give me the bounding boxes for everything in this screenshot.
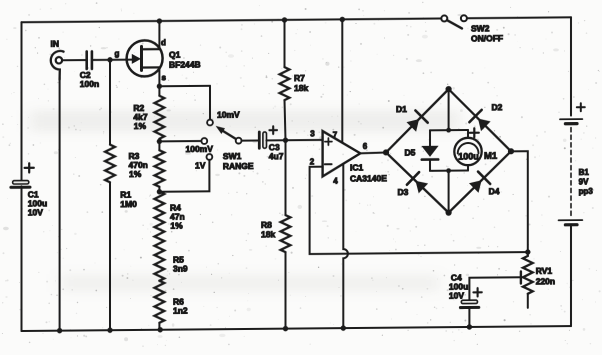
svg-text:10V: 10V — [449, 291, 464, 301]
node: bridge left corner (pin 6 node) — [383, 149, 389, 155]
svg-text:10mV: 10mV — [217, 110, 240, 120]
wire: left border branch (C1 branch, above C1) — [21, 22, 23, 181]
wire: box bottom down to bridge bottom corner — [448, 171, 450, 213]
svg-text:D3: D3 — [398, 187, 409, 197]
wire: top +9V rail (left section, to SW2) — [22, 19, 442, 23]
svg-text:3n9: 3n9 — [173, 264, 188, 274]
node: drain on +9V rail — [157, 18, 162, 23]
node: R1 bottom on 0V rail — [107, 327, 112, 332]
wire: R1 to 0V rail — [109, 182, 111, 330]
resistor R4 47n 1% — [155, 192, 185, 239]
node: bridge bottom corner — [446, 210, 452, 216]
node: IN sleeve on 0V rail — [57, 328, 62, 333]
node: gate junction (C2 / R1 / Q1 gate) — [107, 57, 112, 62]
capacitor C3 4u7 (electrolytic, coupling to IC1) — [259, 126, 283, 161]
svg-text:2: 2 — [310, 157, 315, 166]
wire: right border branch (battery B1 branch, lower) — [570, 228, 572, 327]
svg-text:6: 6 — [363, 142, 368, 151]
svg-text:220n: 220n — [536, 276, 555, 286]
wire: IC1 pin 7 up to +9V rail — [341, 19, 343, 142]
svg-text:D2: D2 — [492, 102, 503, 112]
svg-text:RANGE: RANGE — [223, 161, 254, 171]
svg-text:Q1: Q1 — [169, 50, 181, 60]
capacitor C1 100u 10V (electrolytic, on left branch) — [11, 163, 47, 218]
diode D1 — [396, 104, 428, 132]
svg-text:1%: 1% — [134, 121, 147, 131]
wire: gate node down to R1 — [109, 60, 111, 145]
capacitor C2 100n (input coupling) — [80, 51, 99, 89]
svg-text:D4: D4 — [489, 186, 500, 196]
wire: IC1 pin 4 down with hop over feedback, to 0V rail — [343, 164, 348, 328]
svg-text:18k: 18k — [261, 229, 275, 239]
wire: node to IC1 pin 3 — [286, 139, 323, 141]
resistor R1 1M0 — [105, 144, 137, 209]
wire: SW1 pole to C3 — [242, 139, 258, 141]
node: box bottom junction — [446, 168, 451, 173]
node: RV1 / feedback junction — [525, 249, 530, 254]
svg-text:d: d — [161, 38, 166, 47]
resistor R5 3n9 — [155, 239, 188, 281]
node: pin4 on 0V rail — [341, 325, 346, 330]
wire: bottom 0V rail — [22, 326, 572, 331]
svg-text:1V: 1V — [195, 160, 206, 170]
svg-text:R7: R7 — [294, 73, 305, 83]
meter M1 100u — [454, 128, 498, 171]
wire: meter box bottom — [430, 169, 468, 171]
svg-text:1n2: 1n2 — [173, 306, 188, 316]
wire: 10mV branch down to contact — [209, 86, 211, 120]
svg-text:ON/OFF: ON/OFF — [471, 33, 503, 43]
resistor R6 1n2 — [155, 281, 188, 330]
wire: C2 to gate node — [93, 59, 132, 61]
battery B1 9V pp3 — [559, 103, 594, 228]
wire: source node to R2 — [158, 86, 160, 96]
wire: left border branch (C1 branch, below C1) — [21, 186, 23, 331]
wire: bridge edge left-bottom — [386, 152, 449, 213]
wire: meter box top — [430, 129, 468, 131]
wire: IN jack to C2 — [62, 59, 85, 61]
node: pin7 on +9V rail — [340, 17, 345, 22]
capacitor C4 100u 10V (electrolytic) — [449, 272, 482, 307]
svg-text:1%: 1% — [170, 221, 183, 231]
svg-text:pp3: pp3 — [579, 187, 594, 196]
node: bridge right corner — [508, 148, 514, 154]
svg-text:100n: 100n — [80, 79, 99, 89]
wire: IN jack sleeve down to 0V rail — [59, 78, 61, 331]
svg-text:4u7: 4u7 — [269, 151, 284, 161]
wire: IC1 pin 2 feedback (left, down, right to RV1 node) — [310, 165, 528, 254]
resistor R8 18k — [261, 140, 290, 252]
svg-text:D1: D1 — [396, 104, 407, 114]
node: R8 bottom on 0V rail — [283, 326, 288, 331]
svg-text:1M0: 1M0 — [120, 199, 137, 209]
wire: C4 to 0V rail — [468, 307, 470, 327]
svg-text:7: 7 — [333, 130, 338, 139]
svg-text:4: 4 — [333, 177, 338, 186]
diode D2 — [469, 102, 502, 131]
wire: source to 10mV range branch — [159, 85, 210, 87]
node: bridge top corner — [446, 86, 452, 92]
node: box top junction — [446, 128, 451, 133]
diode D3 — [398, 172, 429, 197]
svg-text:B1: B1 — [579, 168, 590, 177]
svg-text:100u: 100u — [458, 151, 479, 161]
svg-text:IN: IN — [51, 39, 59, 49]
wire: C3 to pin3 node — [267, 139, 286, 141]
svg-text:IC1: IC1 — [350, 162, 363, 172]
wire: right border branch (battery B1 branch, upper) — [570, 17, 572, 115]
node: C4 bottom on 0V rail — [467, 324, 472, 329]
op-amp IC1 CA3140E — [310, 129, 387, 186]
wire: bridge edge top-right — [449, 89, 511, 152]
svg-text:M1: M1 — [484, 151, 498, 162]
node: R7/R8/C3/pin3 junction — [283, 138, 288, 143]
wire: RV1 wiper to C4 — [469, 277, 521, 300]
switch SW2 ON/OFF — [441, 15, 503, 44]
node: source junction — [157, 84, 162, 89]
node: R6 bottom on 0V rail — [158, 327, 163, 332]
svg-text:18k: 18k — [294, 83, 308, 93]
node: R2/R3 junction (100mV tap) — [157, 139, 162, 144]
svg-text:CA3140E: CA3140E — [350, 173, 387, 183]
diode D4 — [469, 171, 500, 196]
wire: R8 to 0V rail — [285, 252, 287, 329]
resistor R3 470n 1% — [129, 141, 165, 192]
svg-text:100mV: 100mV — [186, 144, 214, 154]
svg-text:SW1: SW1 — [223, 151, 242, 161]
node: R3/R4 junction (1V tap) — [157, 189, 162, 194]
svg-text:10V: 10V — [28, 207, 43, 217]
svg-text:RV1: RV1 — [536, 266, 553, 276]
svg-text:BF244B: BF244B — [169, 59, 201, 69]
svg-text:1%: 1% — [129, 169, 142, 179]
wire: bridge right corner to RV1 top node — [511, 151, 528, 252]
wire: bridge top corner down to meter box — [448, 89, 450, 130]
transistor Q1 BF244B (JFET) — [115, 21, 201, 87]
resistor R7 18k — [280, 20, 309, 141]
wire: bridge edge left-top — [386, 89, 449, 152]
resistor R2 4k7 1% — [133, 96, 164, 142]
node: R7 top on +9V rail — [282, 17, 287, 22]
svg-text:g: g — [115, 49, 120, 58]
wire: bridge edge bottom-right — [449, 151, 511, 212]
svg-text:s: s — [162, 73, 167, 82]
diode D5 — [405, 130, 439, 171]
wire: top +9V rail (SW2 to right corner) — [467, 16, 571, 19]
svg-text:D5: D5 — [405, 147, 416, 157]
connector IN (input jack) — [51, 39, 64, 80]
svg-text:SW2: SW2 — [471, 23, 490, 33]
wire: 1V tap right and up to contact — [159, 160, 209, 192]
switch SW1 RANGE (rotary) — [186, 109, 254, 171]
svg-text:3: 3 — [310, 129, 315, 138]
wire: 100mV tap to contact — [159, 140, 201, 142]
svg-text:9V: 9V — [579, 177, 589, 186]
wire: IC1 output pin 6 to bridge left corner — [360, 151, 386, 154]
potentiometer RV1 220n — [521, 252, 555, 308]
